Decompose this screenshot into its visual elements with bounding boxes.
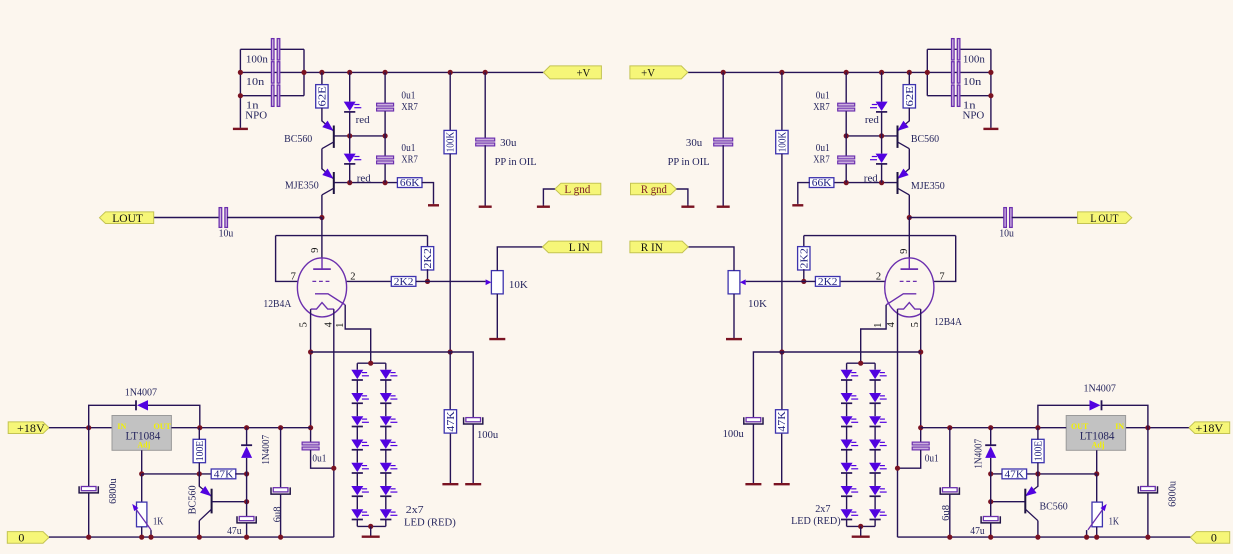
wire 66K to gnd L xyxy=(422,183,434,204)
wire BC560-MJE350 R xyxy=(908,149,910,170)
junction bot a L xyxy=(86,535,91,540)
junction string bot R xyxy=(858,524,863,529)
wire led1 cathode L xyxy=(349,113,351,136)
svg-text:2x7: 2x7 xyxy=(406,504,424,516)
wire xr7-1 top R xyxy=(845,72,847,103)
junction string top L xyxy=(368,361,373,366)
wire pin1 R xyxy=(861,305,886,363)
wire 6800u top L xyxy=(88,428,90,487)
resistor 100E L xyxy=(193,439,206,462)
resistor 2K2 fb R xyxy=(798,247,811,270)
junction grid node R xyxy=(801,279,806,284)
label 1K L xyxy=(153,516,163,528)
svg-text:100n: 100n xyxy=(963,53,986,65)
resistor 66K R xyxy=(809,178,834,189)
LED string A3 R xyxy=(841,416,859,426)
wire feedback left L xyxy=(276,236,298,282)
label 10K L xyxy=(509,279,528,291)
wire 62E top L xyxy=(321,72,323,84)
wire pin4 L xyxy=(333,309,335,537)
svg-text:red: red xyxy=(864,173,878,185)
svg-text:LOUT: LOUT xyxy=(112,211,143,225)
LED string A4 R xyxy=(841,439,859,449)
wire bc e R xyxy=(1037,474,1039,487)
wire str l4 R xyxy=(846,450,848,463)
wire led1 cathode R xyxy=(881,113,883,136)
svg-text:10n: 10n xyxy=(963,76,982,88)
wire str l end R xyxy=(846,520,848,527)
svg-text:PP in OIL: PP in OIL xyxy=(495,156,537,168)
resistor 47K psu R xyxy=(1002,469,1027,480)
svg-text:12B4A: 12B4A xyxy=(934,316,962,328)
wire str r2 R xyxy=(874,403,876,416)
wire feedback right R xyxy=(933,236,955,282)
wire xr7-2 bot L xyxy=(384,164,386,183)
label pin1 R xyxy=(873,323,884,328)
junction rail2-47K R xyxy=(779,349,784,354)
svg-text:1: 1 xyxy=(873,323,884,328)
net label L OUT R xyxy=(1078,211,1132,225)
junction bot e L xyxy=(244,535,249,540)
regulator LT1084 L xyxy=(112,416,172,451)
wire xr7-2 top R xyxy=(845,136,847,156)
svg-text:XR7: XR7 xyxy=(813,101,830,113)
label LED (RED) L xyxy=(404,516,456,528)
svg-text:2K2: 2K2 xyxy=(394,277,414,288)
svg-text:L OUT: L OUT xyxy=(1090,211,1119,225)
junction row1-led R xyxy=(879,133,884,138)
label BC560 psu L xyxy=(188,485,199,514)
wire 2K2v bot R xyxy=(803,269,805,281)
label 0u1 cath R xyxy=(925,452,939,464)
wire str l5 R xyxy=(846,473,848,486)
net label +V L xyxy=(544,66,602,80)
label 6800u R xyxy=(1168,480,1179,507)
LED string B6 R xyxy=(869,486,887,496)
junction adj diode R xyxy=(988,471,993,476)
label NPO L xyxy=(245,109,267,121)
label red 1 L xyxy=(356,114,370,126)
wire str l6 R xyxy=(846,496,848,509)
wire str l2 L xyxy=(356,403,358,416)
wire led2 cathode R xyxy=(881,165,883,183)
wire out rail L xyxy=(171,427,310,429)
wire led2 anode R xyxy=(881,136,883,154)
wire 47u bot L xyxy=(246,523,248,537)
label 1N4007 top L xyxy=(125,387,158,399)
wire str l2 R xyxy=(846,403,848,416)
wire 0u1 step L xyxy=(311,450,334,468)
resistor 62E L xyxy=(316,85,329,108)
label 10u R xyxy=(999,228,1014,240)
junction out diode R xyxy=(988,425,993,430)
label pin7 L xyxy=(291,271,296,282)
label pin2 L xyxy=(350,271,355,282)
label 10u L xyxy=(219,228,234,240)
junction row2-cap R xyxy=(844,180,849,185)
label XR7 2 R xyxy=(813,154,830,166)
junction +V f L xyxy=(483,70,488,75)
svg-text:+V: +V xyxy=(641,66,655,80)
label BC560 R xyxy=(911,133,940,145)
LED string A6 L xyxy=(351,486,369,496)
junction bot c R xyxy=(1035,535,1040,540)
net label L IN xyxy=(543,240,602,254)
svg-text:5: 5 xyxy=(910,322,921,327)
transistor MJE350 L xyxy=(322,169,334,195)
wire led1 anode R xyxy=(881,72,883,101)
net label R IN xyxy=(630,240,688,254)
wire ROUT b xyxy=(1012,217,1078,219)
svg-text:47K: 47K xyxy=(446,410,457,431)
resistor 100E R xyxy=(1032,439,1045,462)
svg-text:47K: 47K xyxy=(214,469,234,480)
tube 12B4A R xyxy=(885,258,934,317)
wire 47K top R xyxy=(781,352,783,409)
label XR7 2 L xyxy=(401,154,418,166)
label pin7 R xyxy=(939,271,944,282)
svg-text:R gnd: R gnd xyxy=(641,182,667,196)
transistor BC560 R xyxy=(897,121,909,149)
svg-text:100u: 100u xyxy=(477,429,499,441)
label 6800u L xyxy=(108,478,119,504)
capacitor 0u1 XR7 1 L xyxy=(377,103,394,111)
LED red 1 L xyxy=(344,102,362,112)
LED string A1 R xyxy=(841,370,859,380)
wire str l6 L xyxy=(356,496,358,509)
wire 30u top L xyxy=(484,72,486,138)
wire str r5 R xyxy=(874,473,876,486)
resistor 100K L xyxy=(444,130,457,153)
diode 1N4007 vert R xyxy=(985,445,996,458)
capacitor C 100n R xyxy=(952,39,960,60)
junction rail2-47K L xyxy=(448,349,453,354)
LED string B4 R xyxy=(869,439,887,449)
junction out 6u8 L xyxy=(278,425,283,430)
svg-text:12B4A: 12B4A xyxy=(263,298,291,310)
label 1n R xyxy=(963,99,976,111)
resistor 47K psu L xyxy=(211,469,236,480)
capacitor 10u L xyxy=(219,208,227,228)
LED string B1 R xyxy=(869,370,887,380)
junction row2-led R xyxy=(879,180,884,185)
LED string A5 R xyxy=(841,463,859,473)
junction +V d R xyxy=(844,70,849,75)
svg-text:47K: 47K xyxy=(1005,469,1025,480)
svg-text:100n: 100n xyxy=(246,53,269,65)
wire bypass b R xyxy=(1038,405,1090,427)
wire cap bank mid (10n) R xyxy=(927,71,991,73)
wire xr7-2 top L xyxy=(384,136,386,156)
label 10n L xyxy=(246,76,265,88)
junction ROUT junction xyxy=(907,215,912,220)
capacitor C 100n L xyxy=(271,39,279,60)
svg-text:100K: 100K xyxy=(777,131,788,152)
resistor 100K R xyxy=(776,130,789,153)
wire diode col a L xyxy=(246,428,248,445)
junction out 6u8 R xyxy=(947,425,952,430)
wire adj drop L xyxy=(141,450,143,474)
label PP in OIL L xyxy=(495,156,537,168)
wire adj drop R xyxy=(1096,450,1098,474)
capacitor 100u cath R xyxy=(744,417,763,424)
junction bot d L xyxy=(197,535,202,540)
LED string B5 L xyxy=(380,463,398,473)
label 12B4A R xyxy=(934,316,962,328)
junction +V b R xyxy=(907,70,912,75)
label 12B4A L xyxy=(263,298,291,310)
svg-text:0u1: 0u1 xyxy=(312,452,326,464)
LED string A3 L xyxy=(351,416,369,426)
ground 47K gnd R xyxy=(774,434,790,485)
svg-text:XR7: XR7 xyxy=(401,154,418,166)
wire MJE350 to out L xyxy=(321,195,323,218)
wire plate stem R xyxy=(908,218,910,259)
label pin9 L xyxy=(310,248,321,253)
net label 0 R xyxy=(1190,531,1229,545)
wire string bottom R xyxy=(847,525,876,527)
ground 66K gnd R xyxy=(792,203,803,205)
wire 47u bot R xyxy=(990,523,992,537)
wire pin5 R xyxy=(920,309,922,442)
label pin1 L xyxy=(335,323,346,328)
wire R gnd stub xyxy=(676,189,688,204)
svg-text:47u: 47u xyxy=(227,525,242,537)
wire xr7-1 bot L xyxy=(384,111,386,136)
junction row2-led L xyxy=(347,180,352,185)
resistor 2K2 fb L xyxy=(421,247,434,270)
wire adj rail b R xyxy=(991,473,1002,475)
svg-text:100u: 100u xyxy=(723,428,745,440)
wire led1 anode L xyxy=(349,72,351,101)
label 0u1 1 R xyxy=(816,89,830,101)
svg-text:30u: 30u xyxy=(500,137,517,149)
svg-text:LT1084: LT1084 xyxy=(126,430,161,442)
wire out rail R xyxy=(921,427,1067,429)
resistor 47K cath L xyxy=(444,410,457,433)
transistor MJE350 R xyxy=(897,169,909,195)
LED string B3 L xyxy=(380,416,398,426)
net label LOUT xyxy=(100,211,154,225)
wire str r5 L xyxy=(385,473,387,486)
wire diode col b R xyxy=(990,458,992,517)
junction bot e R xyxy=(1094,535,1099,540)
junction +V b L xyxy=(319,70,324,75)
ground 100u gnd R xyxy=(745,424,761,484)
junction +V c L xyxy=(347,70,352,75)
LED string B7 L xyxy=(380,509,398,519)
wire str r end R xyxy=(874,520,876,527)
svg-text:LED (RED): LED (RED) xyxy=(404,516,456,528)
junction psu in L xyxy=(86,425,91,430)
svg-text:IN: IN xyxy=(1115,422,1124,431)
wire str r3 L xyxy=(385,427,387,440)
junction adj node R xyxy=(1094,471,1099,476)
junction base node R xyxy=(988,499,993,504)
label 1N4007 vert L xyxy=(261,435,272,465)
LED string B7 R xyxy=(869,509,887,519)
wire plate stem L xyxy=(321,218,323,259)
wire bias row1 L xyxy=(334,135,385,137)
junction grid node L xyxy=(425,279,430,284)
junction pin5-out R xyxy=(918,425,923,430)
svg-text:1N4007: 1N4007 xyxy=(1084,382,1117,394)
junction base node L xyxy=(244,499,249,504)
ground 100u gnd L xyxy=(465,424,481,484)
label pin4 L xyxy=(324,321,335,327)
ground string gnd L xyxy=(362,526,380,536)
svg-text:1K: 1K xyxy=(1109,516,1119,528)
wire led2 cathode L xyxy=(349,165,351,183)
label XR7 1 R xyxy=(813,101,830,113)
label PP in OIL R xyxy=(668,156,710,168)
junction row2-cap L xyxy=(383,180,388,185)
wire string bottom L xyxy=(357,525,386,527)
wire bypass b L xyxy=(148,405,200,427)
ground cap bank gnd R xyxy=(983,96,998,129)
junction pin5-rail2 R xyxy=(918,349,923,354)
label 30u L xyxy=(500,137,517,149)
wire str r4 L xyxy=(385,450,387,463)
wire 2K2v drop L xyxy=(427,236,429,248)
potentiometer 10K L xyxy=(486,271,504,294)
label LED (RED) R xyxy=(791,515,841,527)
wire str l end L xyxy=(356,520,358,527)
junction pin5-rail2 L xyxy=(308,349,313,354)
svg-text:7: 7 xyxy=(939,271,944,282)
capacitor C 10n L xyxy=(271,62,279,83)
junction row1-cap R xyxy=(844,133,849,138)
svg-text:10K: 10K xyxy=(748,298,767,310)
capacitor 30u L xyxy=(476,138,495,146)
LED red 2 R xyxy=(870,154,888,164)
label 1K R xyxy=(1109,516,1119,528)
wire str l4 L xyxy=(356,450,358,463)
svg-text:7: 7 xyxy=(291,271,296,282)
wire str l3 R xyxy=(846,427,848,440)
svg-text:2K2: 2K2 xyxy=(423,248,434,268)
svg-text:0: 0 xyxy=(1211,531,1217,545)
svg-text:47K: 47K xyxy=(777,410,788,431)
tube 12B4A L xyxy=(297,258,346,317)
ground pot gnd R xyxy=(726,294,742,339)
LED red 1 R xyxy=(870,102,888,112)
wire 66K to gnd R xyxy=(798,183,810,204)
svg-text:1N4007: 1N4007 xyxy=(261,435,272,465)
capacitor 0u1 cath R xyxy=(912,442,929,450)
wire str r0 L xyxy=(385,363,387,370)
ground 47K gnd L xyxy=(442,434,458,485)
capacitor 47u R xyxy=(981,516,1000,523)
transistor BC560 L xyxy=(322,121,334,149)
wire led2 anode L xyxy=(349,136,351,154)
label 0u1 1 L xyxy=(401,89,415,101)
capacitor 6u8 R xyxy=(940,487,959,494)
label pin4 R xyxy=(886,321,897,327)
wire str r6 L xyxy=(385,496,387,509)
svg-text:XR7: XR7 xyxy=(813,154,830,166)
wire bc c R xyxy=(1037,521,1039,537)
svg-text:red: red xyxy=(356,114,370,126)
wire adj rail a L xyxy=(142,473,212,475)
transistor BC560 psu R xyxy=(1025,486,1038,521)
wire 6u8 top R xyxy=(949,428,951,488)
wire pin2 wire R xyxy=(840,280,885,282)
LED string A1 L xyxy=(351,370,369,380)
ground L gnd bar xyxy=(537,204,550,206)
junction row1-cap L xyxy=(383,133,388,138)
wire feedback top L xyxy=(276,235,428,237)
junction out 100E R xyxy=(1035,425,1040,430)
resistor 62E R xyxy=(903,85,916,108)
wire 6u8 top L xyxy=(280,428,282,488)
wire 0u1 step R xyxy=(898,450,921,468)
LED string B1 L xyxy=(380,370,398,380)
LED string B2 R xyxy=(869,393,887,403)
capacitor 0u1 XR7 2 L xyxy=(377,156,394,164)
label 0u1 2 L xyxy=(401,142,415,154)
LED string B3 R xyxy=(869,416,887,426)
wire bottom rail R xyxy=(898,536,1191,538)
svg-text:L IN: L IN xyxy=(569,240,590,254)
junction bot c L xyxy=(148,535,153,540)
junction out diode L xyxy=(244,425,249,430)
ground string gnd R xyxy=(852,526,870,536)
wire 62E to BC560 L xyxy=(321,108,323,122)
svg-text:BC560: BC560 xyxy=(911,133,940,145)
wire 1K bot L xyxy=(141,527,143,537)
junction 0u1-pin4 L xyxy=(331,466,336,471)
capacitor 100u cath L xyxy=(464,417,483,424)
LED red 2 L xyxy=(344,154,362,164)
capacitor 6u8 L xyxy=(271,487,290,494)
svg-text:1N4007: 1N4007 xyxy=(973,439,984,469)
wire +18V wire L xyxy=(49,427,112,429)
junction bot f L xyxy=(278,535,283,540)
wire pot top R xyxy=(688,247,734,271)
wire LOUT a xyxy=(154,217,220,219)
svg-text:R IN: R IN xyxy=(641,240,663,254)
wire base wire L xyxy=(212,501,247,503)
wire pin1 L xyxy=(345,305,371,363)
label 47u L xyxy=(227,525,242,537)
svg-text:PP in OIL: PP in OIL xyxy=(668,156,710,168)
svg-text:5: 5 xyxy=(299,322,310,327)
LED string A7 L xyxy=(351,509,369,519)
svg-text:L gnd: L gnd xyxy=(564,182,590,196)
wire bc c L xyxy=(198,521,200,537)
svg-text:BC560: BC560 xyxy=(284,133,313,145)
wire 6u8 bot L xyxy=(280,494,282,537)
svg-text:9: 9 xyxy=(899,249,910,254)
svg-text:4: 4 xyxy=(324,321,335,327)
capacitor 6800u R xyxy=(1138,486,1157,493)
wire 1K arrow bot L xyxy=(150,530,152,537)
wire str r1 L xyxy=(385,380,387,393)
wire feedback top R xyxy=(804,235,956,237)
label 2x7 L xyxy=(406,504,424,516)
label 10n R xyxy=(963,76,982,88)
svg-text:66K: 66K xyxy=(812,178,832,189)
wire 6800u bot L xyxy=(88,493,90,537)
wire 6800u bot R xyxy=(1147,493,1149,537)
label 6u8 L xyxy=(272,506,283,522)
wire +V rail L xyxy=(304,71,544,73)
junction bank-left-1n L xyxy=(238,93,243,98)
junction bot d R xyxy=(1084,535,1089,540)
svg-text:100K: 100K xyxy=(446,131,457,152)
wire str l3 L xyxy=(356,427,358,440)
